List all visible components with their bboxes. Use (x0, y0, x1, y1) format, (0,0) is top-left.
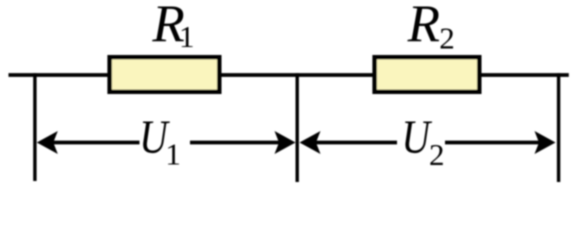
resistor R1 (110, 57, 220, 92)
wire: main horizontal top wire, middle segment (219, 73, 376, 77)
svg-text:2: 2 (429, 137, 445, 172)
label U1 (139, 111, 181, 172)
label R1 (151, 0, 194, 54)
voltage arrow U2: right shaft (445, 141, 540, 145)
wire: middle vertical junction line (296, 73, 299, 182)
voltage arrow U2: left shaft (316, 141, 397, 145)
wire: left vertical terminal line (33, 73, 36, 181)
label R2 (407, 0, 455, 56)
svg-text:1: 1 (179, 19, 195, 54)
wire: main horizontal top wire, right segment (478, 73, 569, 77)
voltage arrow U2: right arrowhead (535, 131, 556, 154)
svg-text:1: 1 (165, 136, 181, 171)
voltage arrow U2: left arrowhead (300, 131, 321, 154)
voltage arrow U1: left arrowhead (37, 131, 58, 154)
label U2 (402, 111, 445, 172)
voltage arrow U1: left shaft (53, 141, 140, 145)
voltage arrow U1: right arrowhead (275, 131, 296, 154)
wire: main horizontal top wire, left segment (9, 73, 113, 77)
svg-text:R: R (407, 0, 440, 53)
wire: right vertical terminal line (557, 73, 560, 182)
svg-text:2: 2 (439, 21, 455, 56)
voltage arrow U1: right shaft (190, 141, 280, 145)
resistor R2 (375, 57, 480, 92)
